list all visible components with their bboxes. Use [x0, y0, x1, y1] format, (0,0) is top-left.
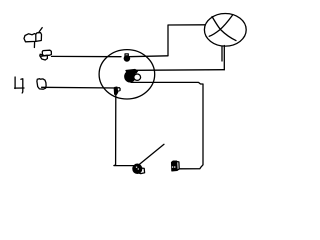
wire pin down to switch pivot — [114, 95, 134, 166]
switch S1 pivot (bottom contact blob) — [133, 164, 145, 173]
lamp L1 — [204, 14, 246, 47]
bottom-left pin of distributor — [114, 87, 120, 94]
pin dot (top pin inside distributor) — [124, 54, 131, 62]
distributor body U1 — [99, 50, 155, 99]
wire riser to lamp — [168, 25, 205, 56]
plug P1 (unconnected terminal, top-left) — [24, 28, 42, 48]
rotor contact (center blob) — [125, 70, 141, 82]
wire rotor to switch contact (right drop) — [131, 82, 203, 168]
label H — [15, 77, 24, 93]
lamp bottom lead (double stroke) — [222, 46, 224, 70]
switch S1 lever (open) — [140, 144, 165, 164]
terminal T1 (top feed terminal) — [40, 50, 52, 60]
wire T1 to distributor top pin — [52, 55, 122, 57]
wire dot to riser — [129, 55, 169, 58]
wire lamp to rotor contact — [134, 69, 224, 72]
terminal T2 (left terminal at H) — [37, 79, 46, 90]
wire T2 to distributor bottom pin — [42, 86, 117, 89]
switch S1 fixed contact — [172, 161, 180, 171]
